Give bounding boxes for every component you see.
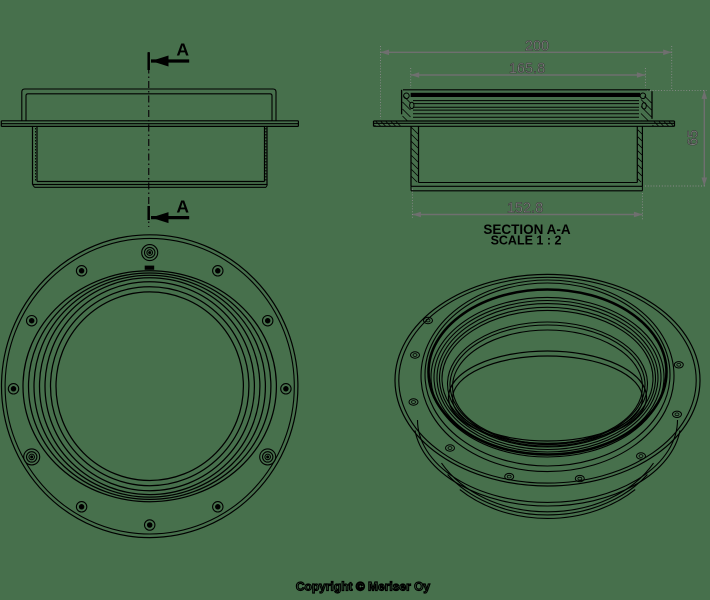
- iso inner opening: [449, 351, 647, 443]
- bolt hole 9 front view: [24, 449, 40, 465]
- o-ring seals: [404, 93, 410, 99]
- iso bolt hole 6: [575, 475, 584, 481]
- bolt hole 6 front view: [213, 502, 223, 512]
- front view outer rim: [2, 235, 298, 538]
- section line end top: [147, 52, 150, 70]
- svg-text:A: A: [176, 197, 189, 217]
- iso bolt hole 2: [411, 352, 420, 358]
- front view notch: [145, 266, 155, 270]
- tube walls side view: [32, 126, 34, 184]
- dimension 165.8: [411, 74, 646, 76]
- svg-text:152.8: 152.8: [507, 201, 543, 217]
- iso bolt hole 3: [409, 399, 418, 405]
- svg-text:165.8: 165.8: [509, 61, 545, 77]
- section line end bottom: [147, 206, 150, 220]
- svg-text:SCALE 1 : 2: SCALE 1 : 2: [491, 234, 562, 248]
- section cup bottom: [419, 182, 638, 184]
- lid outline side view: [22, 89, 276, 121]
- dimension 65 vertical: [703, 90, 705, 186]
- section arrow top: [151, 59, 189, 62]
- flange plate side view: [1, 120, 298, 122]
- iso bolt hole 7: [637, 453, 646, 459]
- iso bolt hole 5: [505, 473, 514, 479]
- iso bolt hole 8: [673, 411, 682, 417]
- section lid: [401, 90, 403, 115]
- bolt hole 10 front view: [8, 384, 18, 394]
- bolt hole 3 front view: [263, 316, 273, 326]
- bolt hole 2 front view: [213, 266, 223, 276]
- section tube walls: [410, 126, 412, 186]
- bolt hole 11 front view: [27, 316, 37, 326]
- dimension 200: [381, 51, 672, 53]
- iso bolt hole 1: [424, 317, 433, 323]
- bolt hole 7 front view: [145, 520, 155, 530]
- iso ring stack: [421, 280, 674, 472]
- iso thick seal ring: [429, 290, 667, 455]
- bolt hole 12 front view: [76, 266, 86, 276]
- iso cup bottom arcs: [418, 420, 678, 502]
- bolt hole 1 front view: [142, 245, 158, 261]
- dimension 152.8: [412, 214, 642, 216]
- bolt hole 4 front view: [281, 384, 291, 394]
- svg-text:A: A: [176, 40, 189, 60]
- iso bolt hole 9: [674, 362, 683, 368]
- svg-text:65: 65: [686, 130, 702, 146]
- section hatching: [396, 122, 401, 127]
- section flange plate: [374, 120, 675, 122]
- svg-text:Copyright © Meriser Oy: Copyright © Meriser Oy: [296, 580, 431, 594]
- bolt hole 5 front view: [260, 449, 276, 465]
- front view ring band: [23, 271, 276, 502]
- iso flange outer rim: [395, 274, 700, 486]
- bolt hole 8 front view: [76, 502, 86, 512]
- section arrow bottom: [151, 216, 189, 219]
- svg-text:200: 200: [525, 39, 549, 55]
- iso bolt hole 4: [446, 445, 455, 451]
- centerline side view: [148, 52, 150, 227]
- tube bottom rim side view: [37, 181, 265, 183]
